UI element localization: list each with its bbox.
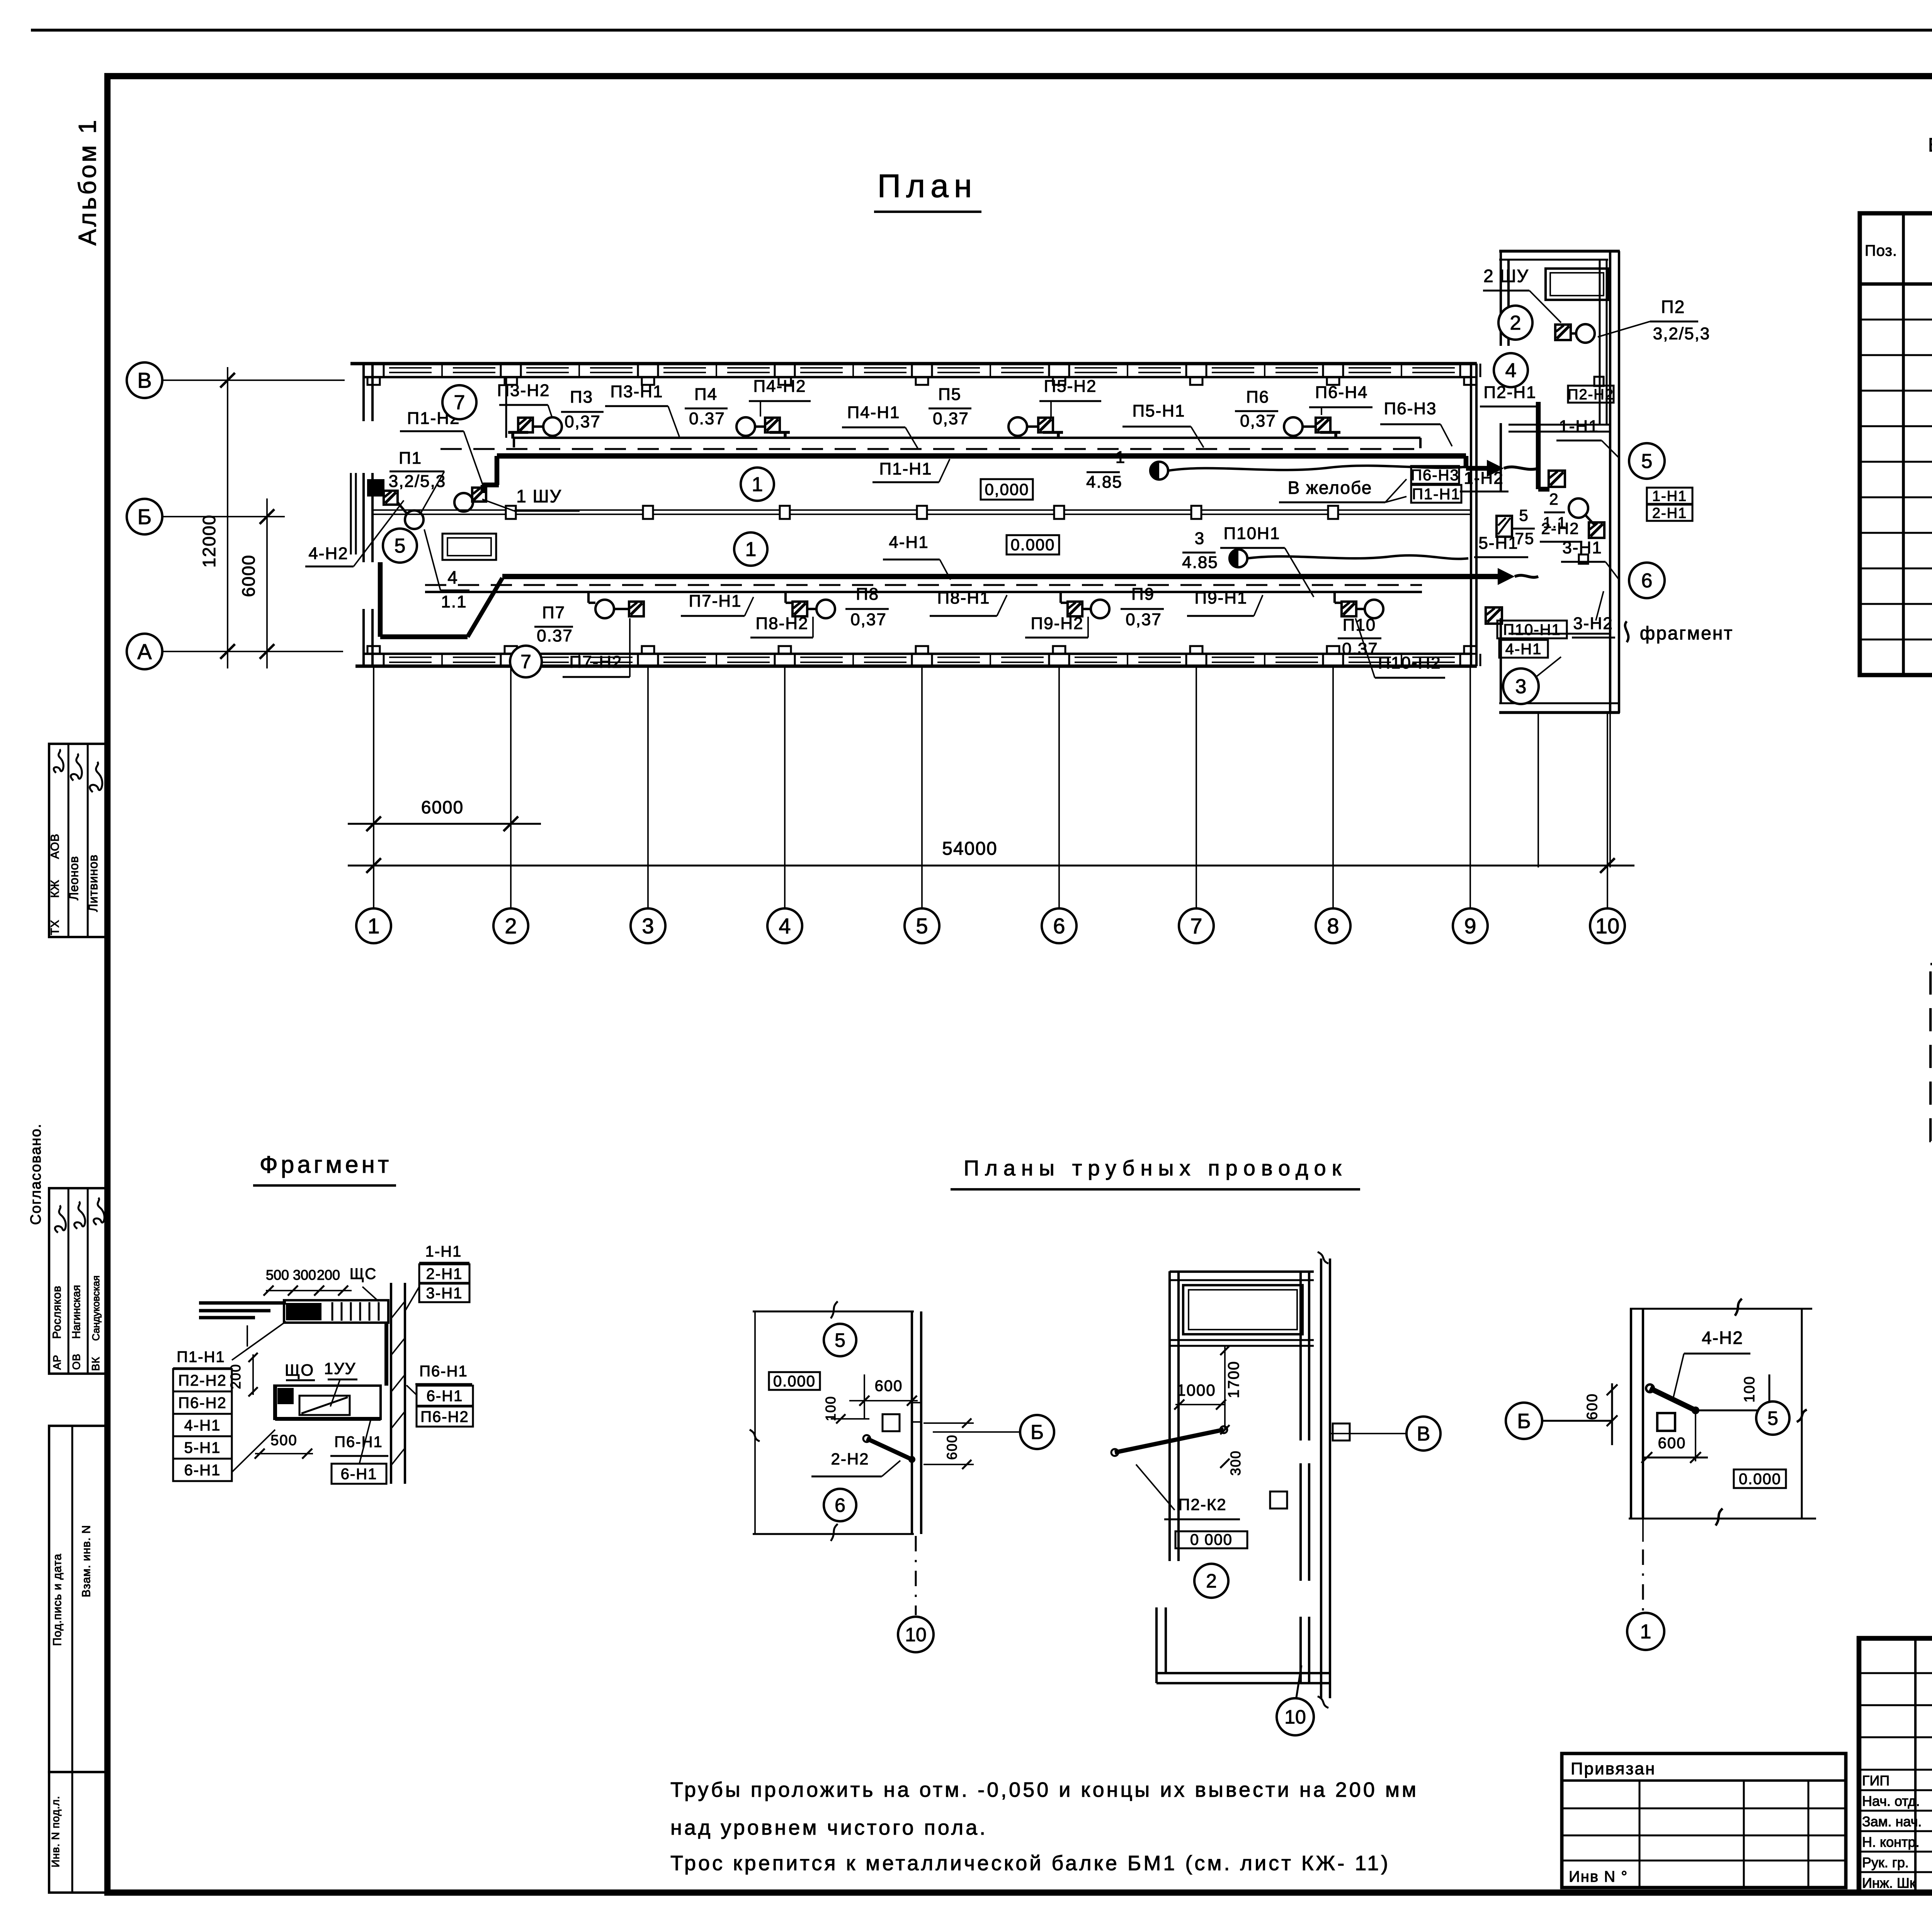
bubble 1 upper hall: [741, 468, 774, 501]
svg-text:Привязан: Привязан: [1571, 1759, 1656, 1778]
building bottom wall: [362, 653, 1471, 655]
vertical dim 6000 left: [266, 498, 268, 668]
svg-text:1: 1: [1116, 448, 1126, 467]
plan C bubble 5: [1756, 1401, 1789, 1435]
plan C cable 4-Н2: [1650, 1388, 1696, 1410]
svg-text:Инв. N под.л.: Инв. N под.л.: [49, 1796, 61, 1867]
svg-text:Леонов: Леонов: [67, 856, 81, 900]
wing small box: [1594, 377, 1604, 386]
svg-text:П9-Н1: П9-Н1: [1195, 588, 1248, 607]
svg-text:Б: Б: [138, 505, 152, 529]
plan A bubble 5: [824, 1324, 856, 1356]
svg-text:П6-Н4: П6-Н4: [1315, 383, 1368, 402]
fan motor П3: [518, 418, 533, 432]
svg-text:П6-Н2: П6-Н2: [178, 1395, 226, 1412]
svg-text:П5-Н2: П5-Н2: [1044, 377, 1097, 396]
bottom cable dashed: [425, 584, 1422, 586]
elevation 0.000 lower: [1007, 535, 1059, 554]
svg-text:Сандуковская: Сандуковская: [90, 1276, 102, 1341]
svg-text:0,37: 0,37: [1240, 412, 1276, 430]
left stamp block Инв N подл: [49, 1772, 107, 1893]
node 4: [767, 908, 802, 943]
boxed label П6-Н3 right: [1411, 466, 1459, 484]
fragment incoming cables: [199, 1301, 286, 1305]
svg-text:2: 2: [1510, 312, 1521, 334]
svg-text:6-Н1: 6-Н1: [427, 1388, 463, 1405]
svg-text:10: 10: [1595, 914, 1619, 938]
corner cable bottom-left: [378, 562, 383, 637]
fragment box ЩС: [284, 1300, 388, 1323]
plan B small square: [1270, 1492, 1287, 1509]
cable arrow into wing bottom: [1498, 568, 1515, 585]
bottom wall pilaster col 8: [1327, 646, 1339, 654]
svg-text:П9: П9: [1131, 585, 1155, 604]
plan A outline: [753, 1311, 914, 1313]
wing starter П10: [1486, 607, 1502, 624]
svg-text:4.85: 4.85: [1182, 553, 1218, 572]
plan C switch box: [1657, 1413, 1675, 1431]
svg-text:5-Н1: 5-Н1: [184, 1439, 221, 1456]
title block main outline: [1859, 1638, 1932, 1893]
sheet outer trim lines: [31, 29, 1932, 32]
svg-text:1-Н1: 1-Н1: [1559, 417, 1599, 436]
feeder junction box: [1328, 506, 1338, 519]
svg-text:5: 5: [916, 914, 928, 938]
feeder junction box: [1054, 506, 1064, 519]
svg-text:Литвинов: Литвинов: [86, 854, 100, 912]
svg-text:П8-Н2: П8-Н2: [756, 614, 809, 633]
svg-text:П2-Н1: П2-Н1: [1484, 383, 1537, 402]
svg-text:0.37: 0.37: [689, 409, 725, 428]
svg-text:0,37: 0,37: [565, 412, 601, 431]
svg-text:Нач. отд.: Нач. отд.: [1862, 1793, 1920, 1809]
fragment pointer: [1625, 621, 1629, 642]
svg-text:2-Н1: 2-Н1: [426, 1265, 463, 1282]
svg-text:Трос крепится к металличе: Трос крепится к металлической балке БМ1 …: [670, 1852, 1390, 1875]
svg-text:1700: 1700: [1225, 1361, 1242, 1398]
plan C right extension line: [1801, 1309, 1803, 1519]
svg-text:0,000: 0,000: [985, 480, 1029, 498]
svg-text:1 ШУ: 1 ШУ: [516, 486, 562, 506]
svg-text:3: 3: [642, 914, 654, 938]
bottom wall pilaster col 7: [1190, 646, 1202, 654]
svg-text:2-Н1: 2-Н1: [1652, 505, 1687, 521]
svg-text:Рук. гр.: Рук. гр.: [1862, 1855, 1909, 1871]
svg-text:9: 9: [1464, 914, 1476, 938]
plan C elevation 0.000: [1734, 1469, 1786, 1488]
fan motor П10: [1342, 602, 1356, 616]
control box dashed outline: [1930, 964, 1932, 1141]
svg-text:0,37: 0,37: [933, 409, 969, 428]
svg-text:АОВ: АОВ: [49, 833, 61, 859]
plan B top wall: [1170, 1270, 1314, 1273]
svg-text:План: План: [878, 168, 978, 204]
svg-text:5: 5: [395, 535, 406, 557]
svg-text:Под.пись и дата: Под.пись и дата: [51, 1553, 64, 1646]
half-filled level symbol upper: [1150, 462, 1168, 480]
svg-text:75: 75: [1515, 529, 1535, 548]
svg-text:В желобе: В желобе: [1288, 478, 1372, 498]
fan motor П6: [1316, 418, 1330, 432]
bubble 5 left: [383, 529, 417, 563]
svg-text:1.1: 1.1: [441, 592, 467, 611]
plan B axis В: [1331, 1433, 1406, 1434]
fan motor П5: [1038, 418, 1053, 432]
svg-text:Инв N °: Инв N °: [1569, 1868, 1628, 1885]
svg-text:1: 1: [745, 538, 757, 561]
svg-text:100: 100: [1742, 1376, 1758, 1402]
svg-text:600: 600: [1658, 1435, 1686, 1452]
grid column lines: [373, 666, 374, 908]
node 9: [1453, 908, 1488, 943]
bubble 5 wing: [1629, 443, 1665, 479]
top wall pilaster col 7: [1190, 377, 1202, 385]
fan motor П7: [629, 602, 644, 616]
axis Б: [162, 516, 285, 517]
svg-text:6-Н1: 6-Н1: [341, 1466, 378, 1483]
svg-text:П2-Н2: П2-Н2: [1568, 386, 1614, 403]
svg-text:Росляков: Росляков: [51, 1286, 63, 1339]
svg-text:0.000: 0.000: [1739, 1471, 1781, 1488]
svg-text:В: В: [137, 368, 151, 393]
bottom wall window lines: [389, 656, 432, 658]
plan A bubble 6: [824, 1489, 856, 1521]
plan B sill: [1170, 1339, 1314, 1341]
svg-text:П6-Н3: П6-Н3: [1384, 399, 1437, 418]
svg-text:Планы трубных проводок: Планы трубных проводок: [964, 1156, 1347, 1180]
left stamp block Взам/Подпись: [49, 1426, 107, 1772]
fragment wall right: [390, 1283, 392, 1484]
svg-text:Б: Б: [1031, 1421, 1044, 1444]
feeder junction box: [1191, 506, 1201, 519]
wing outer walls: [1499, 250, 1620, 253]
svg-text:1: 1: [367, 914, 379, 938]
svg-text:0,37: 0,37: [1126, 610, 1162, 629]
bubble 7 top-left: [442, 385, 476, 419]
svg-text:П5: П5: [938, 385, 961, 404]
node 2: [493, 908, 528, 943]
svg-text:600: 600: [875, 1378, 903, 1395]
svg-text:7: 7: [1190, 914, 1202, 938]
node 5: [905, 908, 939, 943]
svg-text:6000: 6000: [421, 797, 464, 817]
axis В: [162, 379, 345, 381]
wing starter symbol 2ШУ: [1555, 325, 1571, 340]
svg-text:1-Н2: 1-Н2: [1464, 469, 1503, 488]
boxed label П1-Н1 right: [1411, 485, 1461, 503]
boxed label П10-Н1: [1497, 621, 1567, 638]
top cable medium line: [514, 437, 1420, 439]
wing lower cross wall: [1509, 633, 1610, 635]
svg-text:П2-К2: П2-К2: [1178, 1495, 1226, 1514]
svg-text:0.37: 0.37: [1342, 639, 1378, 658]
svg-text:2 ШУ: 2 ШУ: [1483, 266, 1529, 286]
building left wall: [362, 364, 365, 421]
node 1: [356, 908, 391, 943]
svg-text:П5-Н1: П5-Н1: [1133, 401, 1185, 420]
svg-text:Ведомость узлов установки: Ведомость узлов установки электрического…: [1928, 134, 1932, 156]
vertical dim 12000: [227, 367, 228, 668]
plan A elevation 0.000: [769, 1372, 820, 1390]
svg-text:ЩО: ЩО: [285, 1361, 314, 1379]
fragment dim 200 small wall tick: [247, 1325, 248, 1347]
svg-text:П7-Н2: П7-Н2: [570, 653, 622, 672]
svg-text:П9-Н2: П9-Н2: [1031, 614, 1084, 633]
wing thick riser cable: [1536, 402, 1541, 489]
svg-text:ТХ: ТХ: [49, 920, 61, 935]
svg-text:2: 2: [1549, 490, 1559, 508]
svg-text:6: 6: [1053, 914, 1065, 938]
svg-text:1-Н1: 1-Н1: [425, 1243, 462, 1260]
bottom wall pilaster col 9: [1464, 646, 1476, 654]
plan C axis Б: [1542, 1420, 1612, 1422]
svg-text:4: 4: [779, 914, 791, 938]
fragment box ЩО: [274, 1386, 381, 1419]
svg-text:4-Н1: 4-Н1: [889, 533, 929, 552]
svg-text:0.37: 0.37: [537, 626, 573, 645]
node 10: [1590, 908, 1625, 943]
svg-text:П3-Н2: П3-Н2: [497, 381, 550, 400]
svg-text:1000: 1000: [1177, 1381, 1216, 1399]
svg-text:4: 4: [447, 567, 458, 587]
central feeder double line: [373, 509, 1471, 511]
wing top window: [1546, 269, 1608, 300]
svg-text:КЖ: КЖ: [49, 879, 61, 898]
bottom wall pilaster col 4: [779, 646, 791, 654]
svg-text:П1: П1: [399, 449, 422, 468]
svg-text:П6-Н1: П6-Н1: [419, 1363, 468, 1380]
svg-text:П1-Н1: П1-Н1: [177, 1349, 225, 1366]
svg-text:П2-Н2: П2-Н2: [178, 1372, 226, 1389]
bottom cable medium: [425, 591, 1422, 593]
svg-text:3: 3: [1195, 529, 1205, 548]
svg-text:12000: 12000: [199, 514, 219, 568]
fan motor П4: [765, 418, 780, 432]
svg-text:300: 300: [293, 1267, 316, 1283]
fan motor П1: [367, 479, 384, 497]
wing small box lower: [1579, 554, 1588, 564]
plan B window: [1183, 1285, 1303, 1334]
svg-text:4: 4: [1505, 359, 1517, 382]
svg-text:0.000: 0.000: [1010, 536, 1055, 554]
dimension line 6000: [348, 823, 541, 825]
left approval stamp block A: [49, 744, 107, 937]
feeder junction box: [917, 506, 927, 519]
plan A axis 10: [915, 1536, 917, 1615]
top cable thick line П1-Н1: [497, 453, 1466, 459]
svg-text:5: 5: [1641, 450, 1653, 473]
axis А: [162, 651, 343, 652]
plan B cable П2-К2: [1115, 1430, 1224, 1452]
svg-text:8: 8: [1327, 914, 1339, 938]
feeding trough: [442, 534, 496, 560]
plan B bubble 2: [1194, 1564, 1228, 1598]
plan C axis 1: [1642, 1519, 1644, 1542]
equipment table grid: [1860, 213, 1932, 675]
svg-text:П7: П7: [542, 603, 565, 622]
svg-text:П10Н1: П10Н1: [1224, 524, 1281, 543]
svg-text:0 000: 0 000: [1190, 1531, 1233, 1548]
svg-text:П7-Н1: П7-Н1: [689, 592, 742, 611]
svg-text:500: 500: [266, 1267, 289, 1283]
svg-text:1: 1: [752, 473, 763, 496]
plan A axis Б: [933, 1431, 1020, 1433]
fragment cable down: [384, 1323, 388, 1386]
svg-text:П3-Н1: П3-Н1: [611, 382, 663, 401]
svg-text:П1-Н1: П1-Н1: [879, 459, 932, 478]
svg-text:4-Н2: 4-Н2: [1702, 1328, 1743, 1348]
half-filled level symbol lower: [1230, 549, 1247, 567]
svg-text:5: 5: [835, 1330, 845, 1351]
svg-text:1-Н1: 1-Н1: [1652, 488, 1687, 504]
privyazan table: [1562, 1753, 1846, 1888]
wing lamp symbol: [1569, 498, 1588, 518]
svg-text:Поз.: Поз.: [1865, 242, 1897, 259]
svg-text:Взам. инв. N: Взам. инв. N: [80, 1525, 93, 1597]
wing inner cross wall: [1509, 424, 1610, 426]
building top wall: [350, 362, 1477, 366]
svg-text:Н. контр.: Н. контр.: [1862, 1834, 1920, 1850]
plan B bottom wall: [1156, 1672, 1330, 1674]
top cable dashed line: [440, 448, 1426, 450]
svg-text:6: 6: [835, 1495, 845, 1516]
wing starter lower: [1549, 471, 1565, 487]
svg-text:5: 5: [1519, 506, 1529, 524]
top wall pilaster col 9: [1464, 377, 1476, 385]
П3 riser line: [505, 378, 507, 438]
bubble 3 wing: [1503, 668, 1539, 704]
node 8: [1316, 908, 1350, 943]
plan A cable run 2-Н2: [867, 1439, 912, 1459]
svg-text:3,2/5,3: 3,2/5,3: [1653, 324, 1711, 343]
bubble 1 lower hall: [734, 532, 767, 566]
svg-text:10: 10: [1284, 1706, 1306, 1728]
svg-text:0,37: 0,37: [850, 610, 887, 629]
svg-text:П6-Н3: П6-Н3: [1411, 467, 1459, 484]
plan C left wall: [1630, 1309, 1632, 1519]
bubble 2 wing: [1498, 306, 1532, 340]
plan B right wall: [1299, 1272, 1302, 1440]
svg-text:3-Н2: 3-Н2: [1573, 614, 1613, 633]
bottom cable thick line 4-Н1: [502, 574, 1498, 579]
svg-text:5: 5: [1767, 1408, 1778, 1429]
svg-text:Альбом 1: Альбом 1: [73, 118, 101, 246]
plan B corridor wall: [1320, 1259, 1322, 1698]
plan B axis 10: [1296, 1665, 1301, 1697]
node 6: [1042, 908, 1077, 943]
svg-text:П6-Н2: П6-Н2: [420, 1408, 469, 1425]
bottom wall pilaster col 3: [642, 646, 654, 654]
svg-text:6-Н1: 6-Н1: [184, 1462, 221, 1479]
svg-text:4.85: 4.85: [1086, 473, 1122, 492]
svg-text:54000: 54000: [942, 838, 997, 859]
bubble 4 wing: [1494, 353, 1528, 387]
left approval stamp block B: [49, 1188, 107, 1374]
ЯВШ box symbol: [1497, 516, 1512, 537]
bubble 6 wing: [1629, 563, 1665, 598]
top wall pilaster col 4: [779, 377, 791, 385]
title block revision grid: [1914, 1638, 1917, 1893]
control box 1ШУ symbol: [472, 488, 486, 502]
node 3: [631, 908, 665, 943]
svg-text:Б: Б: [1517, 1410, 1531, 1433]
svg-text:3,2/5,3: 3,2/5,3: [389, 472, 446, 491]
svg-text:3-Н1: 3-Н1: [426, 1285, 463, 1302]
feeder junction box: [780, 506, 790, 519]
svg-text:ЩС: ЩС: [350, 1265, 377, 1282]
elevation 0,000 upper: [981, 479, 1033, 500]
svg-text:Трубы проложить на отм. -: Трубы проложить на отм. -0,050 и концы и…: [670, 1778, 1418, 1801]
fan motor П8: [793, 602, 807, 616]
svg-text:П3: П3: [570, 388, 593, 406]
svg-text:2: 2: [505, 914, 517, 938]
svg-text:фрагмент: фрагмент: [1640, 623, 1734, 644]
svg-text:П4: П4: [694, 385, 718, 404]
svg-text:П6-Н1: П6-Н1: [334, 1434, 383, 1451]
svg-text:П6: П6: [1246, 388, 1269, 406]
svg-text:ГИП: ГИП: [1862, 1773, 1889, 1789]
svg-text:2: 2: [1206, 1570, 1217, 1592]
svg-text:6: 6: [1641, 570, 1653, 592]
plan C top line: [1630, 1308, 1812, 1310]
feeder junction box: [643, 506, 653, 519]
svg-text:Зам. нач.: Зам. нач.: [1862, 1814, 1922, 1830]
svg-text:А: А: [137, 639, 152, 664]
svg-text:4-Н1: 4-Н1: [184, 1417, 221, 1434]
plan A right wall: [911, 1311, 913, 1534]
svg-text:7: 7: [454, 391, 465, 414]
svg-text:В: В: [1417, 1423, 1430, 1445]
bubble 7 bottom: [510, 646, 542, 677]
top wall window lines: [389, 367, 432, 369]
svg-text:над уровнем чистого пола: над уровнем чистого пола.: [670, 1816, 988, 1839]
svg-text:6000: 6000: [238, 554, 259, 597]
svg-text:500: 500: [270, 1432, 297, 1449]
svg-text:Инж. Шк: Инж. Шк: [1862, 1875, 1916, 1891]
top wall pilaster col 1: [367, 377, 380, 385]
top wall pilaster col 2: [505, 377, 517, 385]
svg-text:2-Н2: 2-Н2: [1541, 519, 1579, 537]
svg-text:1УУ: 1УУ: [324, 1359, 356, 1378]
svg-text:4-Н2: 4-Н2: [308, 544, 348, 563]
svg-text:ВК: ВК: [90, 1357, 102, 1371]
svg-text:100: 100: [823, 1396, 838, 1421]
svg-text:П4-Н1: П4-Н1: [847, 403, 900, 422]
svg-text:1: 1: [1640, 1621, 1651, 1643]
dimension line 54000: [348, 865, 1634, 867]
title block name rows: [1859, 1769, 1932, 1771]
svg-text:П8: П8: [856, 585, 879, 604]
bottom wall pilaster col 2: [505, 646, 517, 654]
vestibule outer wall: [350, 473, 352, 554]
svg-text:200: 200: [317, 1267, 340, 1283]
svg-text:2-Н2: 2-Н2: [831, 1450, 869, 1468]
svg-text:П4-Н2: П4-Н2: [753, 377, 806, 396]
cable arrow into wing top: [1487, 460, 1504, 477]
svg-text:П1-Н1: П1-Н1: [1412, 486, 1460, 503]
svg-text:7: 7: [520, 651, 531, 673]
svg-text:П10: П10: [1343, 616, 1376, 634]
top wall pilaster col 6: [1053, 377, 1065, 385]
fragment boxed 6-Н1 bottom: [332, 1464, 386, 1484]
svg-text:П10-Н2: П10-Н2: [1378, 653, 1441, 672]
bottom wall pilaster col 1: [367, 646, 380, 654]
boxed label 4-Н1 wing: [1499, 640, 1548, 658]
plan B wall box: [1333, 1423, 1350, 1440]
svg-text:600: 600: [944, 1434, 960, 1460]
svg-text:10: 10: [905, 1624, 927, 1646]
svg-text:4-Н1: 4-Н1: [1505, 641, 1542, 658]
